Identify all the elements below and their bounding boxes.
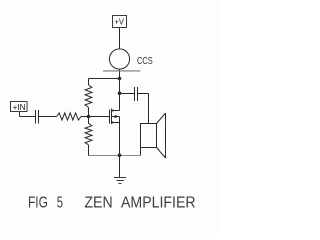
svg-text:AMPLIFIER: AMPLIFIER	[121, 194, 196, 211]
svg-text:ZEN: ZEN	[84, 194, 112, 211]
svg-text:CCS: CCS	[137, 56, 153, 67]
svg-text:+IN: +IN	[13, 102, 26, 112]
svg-text:5: 5	[57, 194, 63, 211]
svg-text:FIG: FIG	[28, 194, 48, 211]
svg-text:+V: +V	[115, 17, 125, 27]
